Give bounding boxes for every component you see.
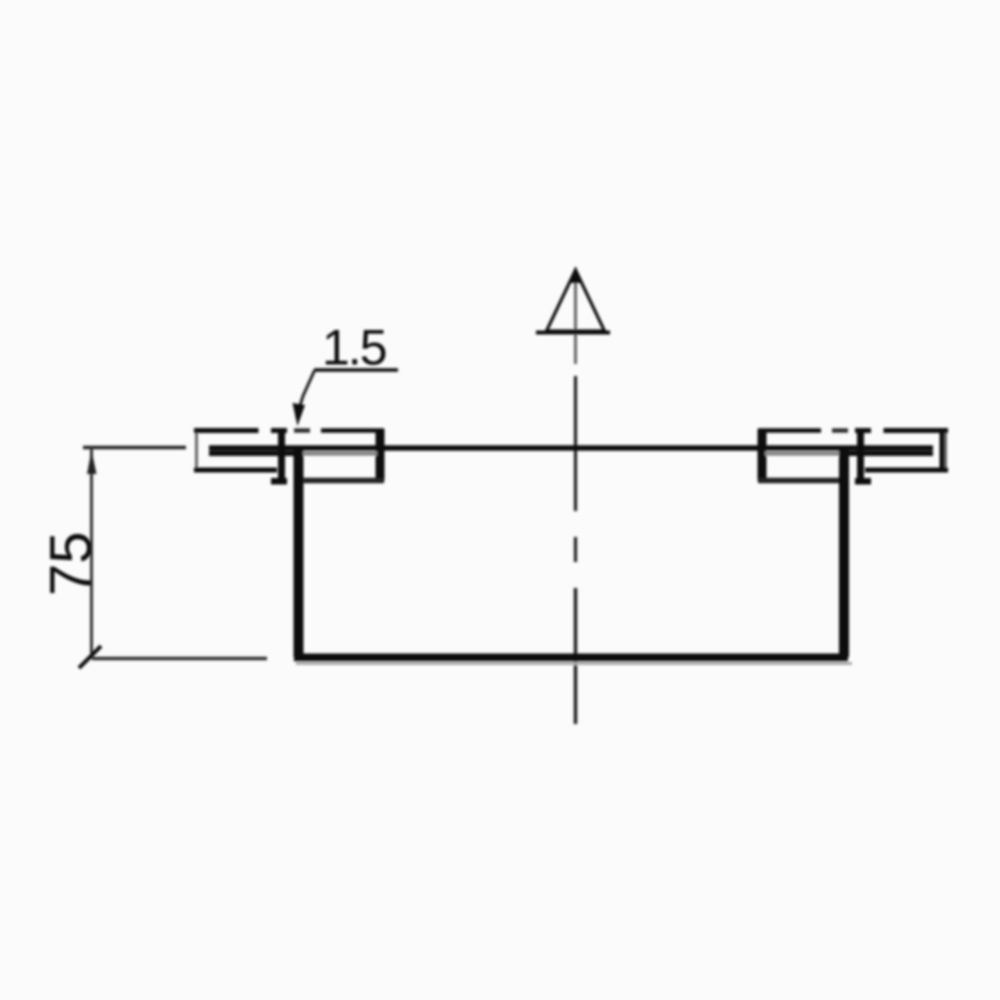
inner rect top dash (gray) bbox=[294, 428, 310, 433]
right snap-hook assembly (mirror) bbox=[758, 428, 948, 485]
tick top bbox=[87, 450, 97, 474]
leader arrowhead bbox=[293, 403, 306, 426]
outer rect top edge bbox=[194, 428, 259, 433]
top extension line (thin, left) bbox=[83, 446, 186, 450]
U-channel right wall (thick) bbox=[839, 448, 849, 657]
outer rect bottom edge bbox=[194, 468, 277, 473]
inner rect right edge bbox=[376, 429, 385, 481]
left snap-hook assembly bbox=[194, 428, 384, 485]
foot block bbox=[271, 478, 287, 485]
svg-text:75: 75 bbox=[39, 531, 104, 596]
svg-text:1.5: 1.5 bbox=[322, 320, 386, 376]
U-channel bottom (thick) bbox=[294, 654, 848, 662]
U-channel left wall (thick) bbox=[294, 448, 304, 657]
right outer rect right edge (black overlay) bbox=[940, 429, 945, 471]
centerline (vertical dash-dot axis) bbox=[574, 270, 577, 724]
datum arrow base line bbox=[536, 331, 610, 335]
leader underline bbox=[314, 368, 398, 372]
hook arm shelf continuation (gray) bbox=[303, 451, 377, 456]
tick bottom bbox=[79, 646, 101, 668]
datum arrow apex fill bbox=[570, 269, 581, 283]
divider vertical bbox=[278, 428, 285, 480]
datum arrow (open triangle) bbox=[547, 270, 605, 331]
dimension line 75 (vertical) bbox=[90, 448, 93, 660]
bottom extension line (thin) bbox=[92, 657, 267, 661]
main top edge (thick section line) bbox=[209, 445, 933, 451]
outer rect left edge bbox=[195, 429, 198, 470]
divider top cap dash bbox=[271, 428, 287, 433]
inner rect bottom edge bbox=[303, 478, 384, 484]
leader line bbox=[297, 371, 315, 418]
inner rect top edge bbox=[321, 428, 384, 433]
hook arm shelf (black) bbox=[209, 451, 297, 456]
U-channel bottom lower fringe bbox=[296, 662, 852, 665]
